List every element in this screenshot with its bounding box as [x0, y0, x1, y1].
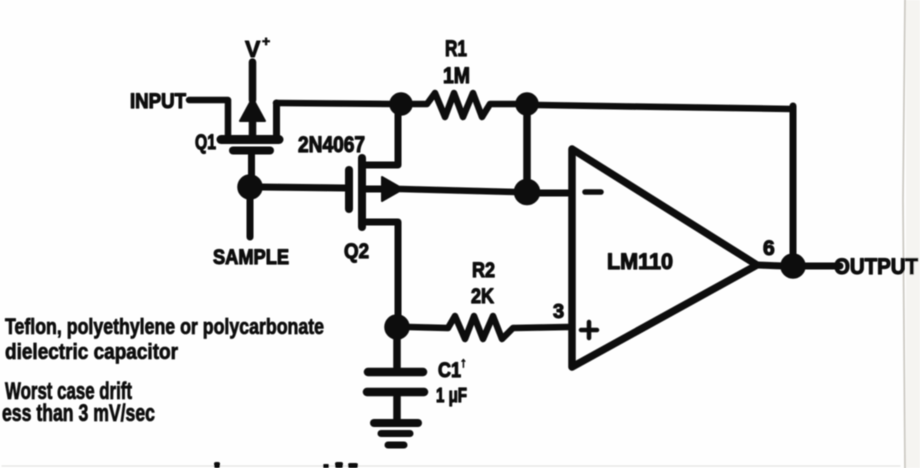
resistor R2	[408, 316, 568, 339]
svg-text:2K: 2K	[471, 285, 494, 308]
op-amp minus sign	[585, 189, 601, 195]
Q2 gate bar	[345, 170, 353, 209]
Q1 arrow	[240, 98, 265, 121]
resistor R1	[412, 93, 516, 117]
wire: output lead	[757, 265, 840, 266]
wire: feedback corner drop	[790, 106, 797, 258]
wire: INPUT lead	[189, 100, 228, 137]
svg-text:C1: C1	[438, 359, 461, 382]
svg-text:1M: 1M	[443, 63, 470, 88]
svg-text:INPUT: INPUT	[130, 90, 186, 113]
Q2 channel bar	[358, 158, 366, 227]
Q1 bottom bar	[233, 147, 270, 155]
wire: Q2 source to inverting node	[400, 189, 516, 192]
C1 bottom stub	[393, 396, 401, 421]
svg-text:6: 6	[763, 237, 775, 260]
wire: node to Q2 gate	[260, 187, 345, 188]
svg-text:1 μF: 1 μF	[436, 385, 467, 407]
svg-text:Teflon, polyethylene or polyca: Teflon, polyethylene or polycarbonate	[5, 314, 324, 339]
capacitor C1	[367, 338, 424, 421]
transistor Q2	[349, 107, 403, 318]
wire: inverting input lead	[538, 190, 568, 197]
node: R1 left junction dot	[390, 93, 412, 115]
wire: top feedback rail	[537, 105, 793, 109]
Q1 right stub to top rail	[273, 103, 280, 136]
node: C1 junction dot	[385, 315, 409, 339]
svg-text:Q1: Q1	[195, 131, 216, 154]
svg-text:V: V	[245, 36, 261, 62]
op-amp plus sign	[581, 322, 597, 338]
svg-text:OUTPUT: OUTPUT	[834, 254, 919, 279]
Q1 gate drop to node	[248, 154, 255, 182]
svg-text:2N4067: 2N4067	[298, 132, 365, 157]
op-amp U1 LM110	[572, 149, 757, 367]
bottom cut-off caption marks	[214, 462, 358, 468]
svg-text:ess than 3 mV/sec: ess than 3 mV/sec	[2, 400, 155, 427]
transistor Q1	[221, 98, 279, 182]
node: R1 right junction dot	[516, 93, 538, 115]
C1 top plate	[368, 368, 423, 377]
svg-text:R1: R1	[445, 36, 467, 61]
Q2 source lead with arrow	[366, 186, 383, 193]
node: sample junction dot	[238, 175, 262, 199]
C1 top stub	[393, 338, 401, 368]
wire: R1 right dot drop to inverting input	[523, 114, 531, 182]
svg-text:LM110: LM110	[607, 249, 673, 274]
svg-text:Q2: Q2	[344, 240, 369, 263]
Q2 drain lead	[362, 107, 398, 165]
label V+ supply	[245, 33, 270, 62]
node: output junction dot	[781, 254, 805, 278]
Q2 bottom lead	[362, 222, 398, 318]
ground	[374, 423, 418, 445]
scan page edge line	[903, 0, 905, 468]
label C1 with dagger	[438, 354, 467, 382]
wire: V+ drop	[249, 62, 257, 100]
svg-text:dielectric capacitor: dielectric capacitor	[5, 339, 178, 364]
svg-text:SAMPLE: SAMPLE	[213, 246, 289, 269]
bottom faint rule	[2, 465, 900, 467]
node: inverting input junction dot	[515, 180, 540, 205]
svg-text:R2: R2	[472, 259, 495, 282]
svg-text:+: +	[262, 33, 270, 49]
svg-text:↑: ↑	[460, 354, 467, 370]
scan page margin strip	[906, 0, 920, 468]
wire: sample stub	[247, 196, 254, 237]
C1 bottom plate	[367, 388, 424, 397]
svg-text:3: 3	[553, 301, 564, 323]
Q1 top bar	[221, 135, 279, 144]
wire: top rail from Q1 to R1	[276, 103, 397, 104]
